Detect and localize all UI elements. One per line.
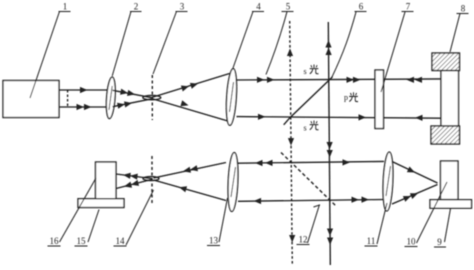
svg-text:s: s	[303, 67, 306, 76]
svg-text:3: 3	[180, 2, 185, 12]
svg-text:p: p	[344, 93, 348, 102]
svg-text:9: 9	[437, 237, 442, 247]
svg-text:7: 7	[406, 2, 411, 12]
svg-text:5: 5	[286, 2, 291, 12]
svg-text:15: 15	[77, 236, 87, 246]
svg-text:4: 4	[256, 2, 261, 12]
svg-text:16: 16	[50, 236, 60, 246]
svg-text:6: 6	[359, 2, 364, 12]
svg-text:8: 8	[461, 4, 466, 14]
svg-text:1: 1	[63, 2, 68, 12]
svg-text:14: 14	[116, 236, 126, 246]
svg-text:s: s	[303, 124, 306, 133]
svg-text:2: 2	[134, 2, 139, 12]
svg-text:10: 10	[407, 237, 417, 247]
svg-text:11: 11	[367, 236, 376, 246]
svg-text:13: 13	[209, 236, 219, 246]
svg-text:12: 12	[299, 235, 308, 245]
